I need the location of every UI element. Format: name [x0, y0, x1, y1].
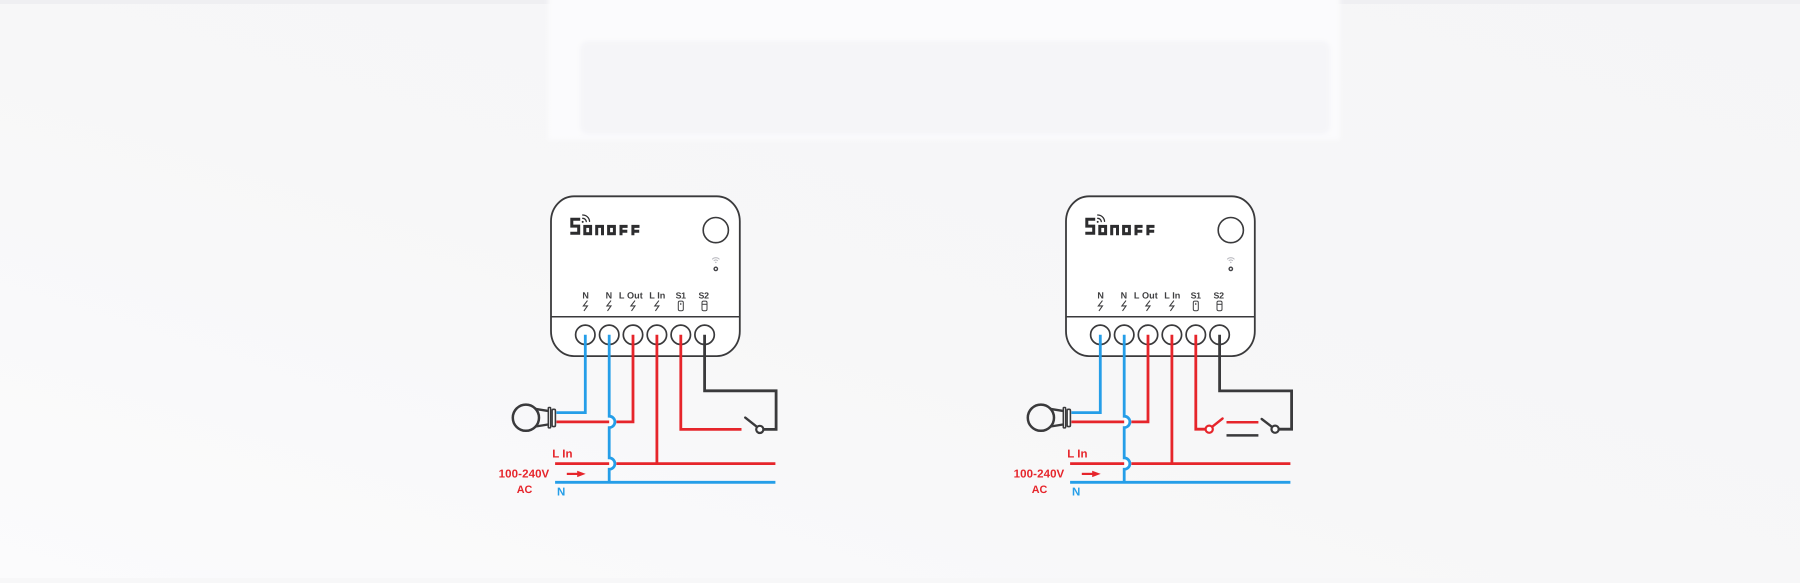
blue wires left: [556, 335, 616, 483]
switch SW2 contact bar (black): [1227, 434, 1259, 437]
red wires right: [1071, 335, 1172, 464]
switch SW2 lever B (black): [1262, 419, 1272, 427]
wire S2 (black): [1220, 335, 1292, 429]
switch SW1 lever: [745, 418, 757, 428]
mains supply right: [1014, 449, 1291, 499]
wire S2 (black): [705, 335, 777, 430]
blue wires right: [1071, 335, 1131, 483]
switch SW2 contact bar (red): [1227, 421, 1259, 424]
red wires left: [556, 335, 657, 464]
device U2 (SONOFF relay): [1066, 196, 1255, 356]
device U1 (SONOFF relay): [551, 196, 740, 356]
lamp E1: [513, 405, 556, 431]
wire S1 (red): [681, 335, 742, 430]
switch SW2 pivot A (red): [1206, 426, 1213, 433]
switch SW2 pivot B (black): [1272, 426, 1279, 433]
switch SW2 lever A (red): [1212, 419, 1222, 427]
mains supply left: [499, 449, 776, 499]
wire S1 (red): [1196, 335, 1206, 429]
switch SW1 pivot: [756, 426, 763, 433]
lamp E2: [1028, 405, 1071, 431]
